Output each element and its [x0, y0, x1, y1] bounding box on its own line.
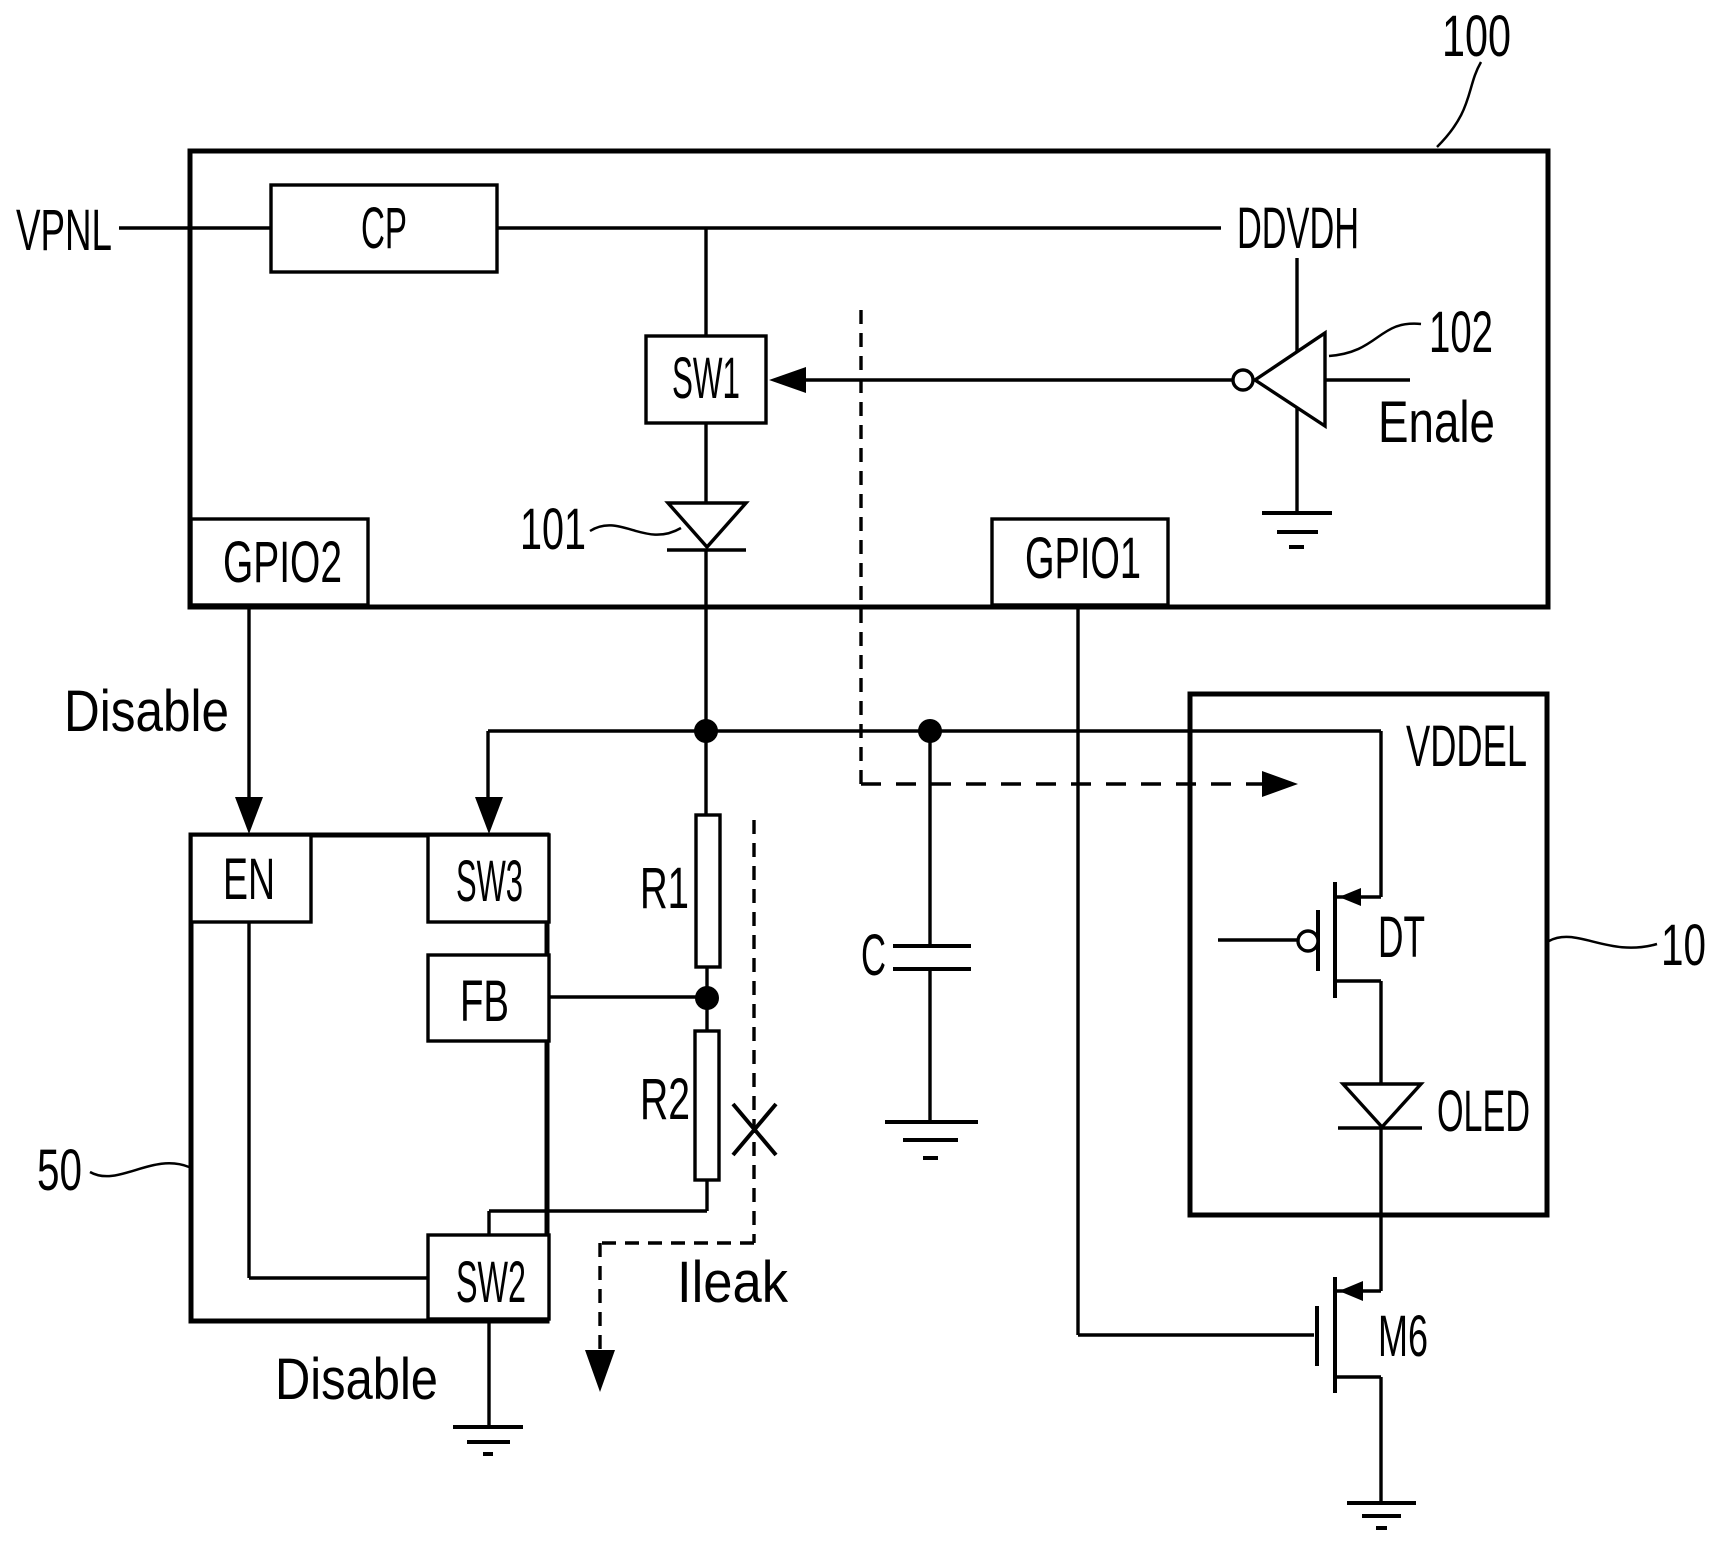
svg-text:OLED: OLED [1437, 1079, 1530, 1144]
svg-text:50: 50 [37, 1138, 82, 1203]
svg-text:SW2: SW2 [456, 1250, 526, 1315]
svg-text:100: 100 [1442, 4, 1511, 69]
svg-text:SW3: SW3 [456, 849, 523, 914]
svg-text:R2: R2 [640, 1067, 690, 1132]
svg-text:C: C [861, 923, 886, 988]
svg-text:DDVDH: DDVDH [1237, 196, 1359, 261]
svg-text:10: 10 [1661, 913, 1706, 978]
svg-text:Enale: Enale [1378, 390, 1495, 455]
svg-text:101: 101 [520, 497, 586, 562]
svg-text:R1: R1 [640, 856, 689, 921]
svg-text:M6: M6 [1378, 1304, 1428, 1369]
svg-text:VPNL: VPNL [16, 198, 112, 263]
svg-text:CP: CP [361, 196, 407, 261]
svg-text:Disable: Disable [64, 679, 229, 744]
svg-text:VDDEL: VDDEL [1406, 714, 1527, 779]
svg-text:GPIO1: GPIO1 [1025, 526, 1141, 591]
svg-text:GPIO2: GPIO2 [223, 530, 342, 595]
svg-text:EN: EN [223, 847, 275, 912]
svg-text:DT: DT [1378, 905, 1425, 970]
svg-text:SW1: SW1 [672, 346, 740, 411]
svg-text:Ileak: Ileak [677, 1250, 789, 1315]
svg-text:102: 102 [1429, 300, 1493, 365]
svg-text:FB: FB [460, 969, 509, 1034]
svg-text:Disable: Disable [275, 1347, 438, 1412]
